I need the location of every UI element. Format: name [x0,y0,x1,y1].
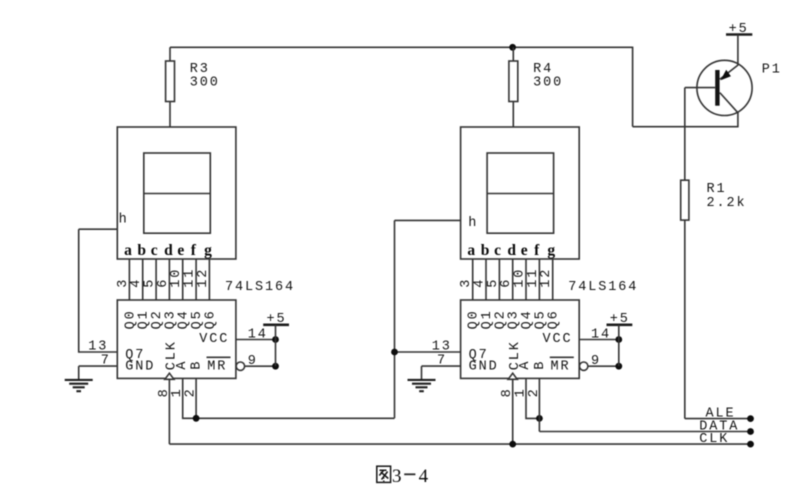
node MR junction [615,363,622,370]
wire display pin 4 [512,259,514,300]
IC U2 clock triangle [508,373,517,379]
wire display pin 1 [472,259,474,300]
svg-text:12: 12 [539,268,554,288]
wire U2 A input drop [526,378,539,418]
wire U2 GND pin 7 [422,365,461,367]
op IC U2 74LS164 box [461,300,580,378]
display DS2 digit outline [487,153,553,233]
IC U1 MR overline [207,356,231,358]
node junction R4 top rail [509,44,516,51]
node CLK terminal [747,441,754,448]
wire DATA bus [539,431,750,433]
svg-text:R4: R4 [533,62,553,77]
wire left display h segment [79,228,118,230]
node MR junction [272,363,279,370]
node U2 A-B junction [536,415,543,422]
svg-text:13: 13 [432,339,452,354]
wire R3 to display [169,102,171,128]
wire ground drop [78,366,80,379]
svg-text:h: h [119,212,129,227]
wire rail horizontal to collector [633,126,738,128]
svg-text:7: 7 [101,353,111,368]
svg-text:4: 4 [419,466,429,487]
wire ALE bus [685,418,751,420]
wire rail vertical down [632,47,634,127]
svg-text:R3: R3 [190,62,210,77]
svg-text:13: 13 [88,339,108,354]
svg-text:g: g [204,242,212,259]
svg-text:VCC: VCC [199,332,229,347]
op IC U1 74LS164 box [117,300,236,378]
wire base vertical down to R1 [684,88,686,181]
wire display pin 3 [498,259,500,300]
svg-text:h: h [468,216,478,231]
svg-text:74LS164: 74LS164 [568,280,638,295]
svg-text:d: d [164,242,173,259]
svg-text:A: A [175,360,190,370]
node U2 Q7 junction [391,349,398,356]
wire U2 Q7 pin 13 [395,351,461,353]
wire R1 down to ALE [684,220,686,419]
caption figure glyph tu [377,466,391,482]
wire U2 VCC pin 14 [579,339,619,341]
caption dash [404,473,415,475]
svg-text:14: 14 [591,327,611,342]
display DS2 digit middle segment [487,193,553,195]
wire R3 top [169,47,171,61]
svg-text:7: 7 [437,353,447,368]
wire right display h segment [395,219,461,221]
svg-text:b: b [481,242,490,259]
wire display pin 6 [538,259,540,300]
svg-text:12: 12 [196,268,211,288]
svg-text:a: a [124,242,132,259]
svg-text:c: c [151,242,158,259]
svg-text:CLK: CLK [699,432,729,447]
wire +5 vertical [275,325,277,366]
svg-text:d: d [507,242,516,259]
wire display pin 3 [155,259,157,300]
display DS2 7-segment box [461,127,580,259]
wire h vertical to Q7 [78,229,80,353]
svg-text:300: 300 [190,76,220,91]
svg-text:b: b [137,242,146,259]
resistor R4 body [509,61,518,102]
svg-text:9: 9 [591,354,601,369]
power +5 bar [263,323,289,326]
svg-text:e: e [177,242,184,259]
wire ground drop [421,366,423,379]
svg-text:c: c [494,242,501,259]
transistor P1 collector diagonal [720,93,739,114]
wire CLK bus [169,443,750,445]
wire display pin 2 [142,259,144,300]
wire U1 MR pin 9 [245,365,276,367]
power +5 bar [607,323,633,326]
wire U2 B input to DATA [538,378,540,431]
svg-text:+5: +5 [267,312,287,327]
node CLK junction U2 [509,441,516,448]
IC U1 clock triangle [165,373,174,379]
wire display pin 1 [128,259,130,300]
wire U1 CLK pin 8 drop [168,379,170,444]
wire display pin 5 [525,259,527,300]
transistor P1 circle [697,60,752,115]
wire U2 CLK pin 8 drop [512,379,514,444]
ground U2 [408,380,436,391]
IC U2 MR bubble [580,362,588,370]
node ALE terminal [747,415,754,422]
node DATA terminal [747,428,754,435]
svg-text:R1: R1 [707,182,727,197]
wire U1 Q7 pin 13 [79,351,118,353]
wire display pin 6 [195,259,197,300]
svg-text:MR: MR [551,360,571,375]
resistor R3 body [166,61,175,102]
transistor P1 emitter diagonal [720,65,738,79]
wire display pin 2 [485,259,487,300]
svg-text:2.2k: 2.2k [707,196,747,211]
resistor R1 body [681,180,689,220]
svg-text:f: f [191,242,197,259]
wire base to R1 [685,87,715,89]
node VCC junction [272,336,279,343]
transistor P1 emitter arrow [721,70,731,81]
wire display pin 7 [208,259,210,300]
svg-text:74LS164: 74LS164 [225,280,295,295]
svg-text:9: 9 [248,354,258,369]
display DS1 7-segment box [117,127,236,259]
wire display pin 7 [552,259,554,300]
svg-text:a: a [467,242,475,259]
svg-text:P1: P1 [762,63,782,78]
transistor P1 emitter wire [737,35,739,66]
IC U2 MR overline [550,356,574,358]
wire +5 vertical [618,325,620,366]
svg-text:GND: GND [125,360,155,375]
wire U2 Q7 cascade vertical [394,220,396,418]
svg-text:3: 3 [392,466,402,487]
power +5 emitter supply bar [726,33,752,36]
svg-text:+5: +5 [610,312,630,327]
svg-text:Q6: Q6 [203,309,218,329]
display DS1 digit middle segment [144,193,211,195]
wire R4 top [512,47,514,61]
svg-text:A: A [518,360,533,370]
transistor Q P1 collector wire [737,113,739,128]
svg-text:g: g [547,242,555,259]
IC U1 MR bubble [236,362,244,370]
wire U1 GND pin 7 [79,365,118,367]
svg-text:f: f [534,242,540,259]
svg-text:14: 14 [248,327,268,342]
wire U2 MR pin 9 [588,365,619,367]
wire U1 A input drop [183,378,395,418]
svg-text:e: e [521,242,528,259]
display DS1 digit outline [144,153,211,233]
wire display pin 5 [182,259,184,300]
svg-text:B: B [190,360,205,370]
transistor P1 base bar [715,70,719,106]
wire U1 VCC pin 14 [236,339,276,341]
node U1 A-B junction [193,415,200,422]
ground U1 [65,380,93,391]
svg-text:Q6: Q6 [547,309,562,329]
wire display pin 4 [168,259,170,300]
wire top +5 rail from R3 to corner [170,46,633,48]
svg-text:GND: GND [469,360,499,375]
wire U1 B input drop [195,378,197,418]
svg-text:300: 300 [533,76,563,91]
svg-text:MR: MR [207,360,227,375]
wire R4 to display [512,102,514,128]
svg-text:B: B [533,360,548,370]
svg-text:VCC: VCC [543,332,573,347]
node VCC junction [615,336,622,343]
